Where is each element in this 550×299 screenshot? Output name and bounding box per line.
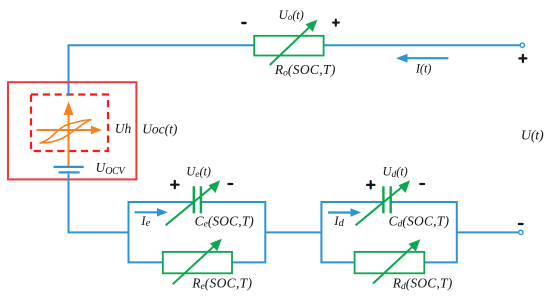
RC loop 1 (blue rectangle with gap for capacitor) xyxy=(129,202,266,262)
label plus above R0 xyxy=(333,20,339,26)
svg-text:Id: Id xyxy=(333,213,344,229)
node: - terminal circle xyxy=(519,230,523,234)
hysteresis dashed red box xyxy=(31,95,108,152)
hysteresis horizontal arrow xyxy=(37,126,103,135)
svg-text:Re(SOC,T): Re(SOC,T) xyxy=(191,276,252,292)
resistor Re variable arrow xyxy=(173,239,222,284)
wire: loop1 to loop2 xyxy=(265,231,321,233)
resistor R0 variable arrow xyxy=(270,20,318,65)
current arrow Id xyxy=(328,208,361,217)
svg-text:Ce(SOC,T): Ce(SOC,T) xyxy=(195,213,255,229)
battery top plate xyxy=(54,166,84,168)
label minus for Ue xyxy=(229,183,233,185)
battery bottom plate xyxy=(59,171,80,173)
capacitor Cd variable arrow xyxy=(356,180,411,225)
label plus for Ud xyxy=(367,181,374,188)
RC loop 2 (blue rectangle with gap for capacitor) xyxy=(321,202,456,262)
node: + terminal circle xyxy=(520,43,524,47)
hysteresis vertical arrow xyxy=(64,102,74,167)
current arrow I(t) xyxy=(396,54,448,63)
svg-text:Rd(SOC,T): Rd(SOC,T) xyxy=(392,276,453,292)
resistor Re box xyxy=(163,252,232,273)
label plus at right terminal xyxy=(519,55,526,62)
resistor Rd variable arrow xyxy=(373,239,420,283)
svg-text:Ue(t): Ue(t) xyxy=(186,165,210,180)
capacitor Cd plates xyxy=(383,186,390,213)
svg-text:I(t): I(t) xyxy=(415,61,432,75)
wire: top rail left of R0 xyxy=(68,44,255,46)
svg-text:Ro(SOC,T): Ro(SOC,T) xyxy=(274,62,336,78)
svg-text:Uh: Uh xyxy=(115,121,132,136)
wire: top rail right of R0 to + terminal xyxy=(324,44,520,46)
svg-text:Cd(SOC,T): Cd(SOC,T) xyxy=(389,213,450,229)
label minus above R0 xyxy=(242,22,245,24)
label plus for Ue xyxy=(171,181,179,188)
wire: blue stub crossing dashed box edge xyxy=(68,91,70,96)
wire: loop2 to - terminal xyxy=(457,231,519,233)
svg-text:Uoc(t): Uoc(t) xyxy=(142,122,178,137)
OCV source red box xyxy=(8,82,136,179)
wire: top-left vertical branch xyxy=(68,45,70,96)
svg-text:Uo(t): Uo(t) xyxy=(278,7,303,22)
resistor R0 box xyxy=(254,36,323,56)
svg-text:Ud(t): Ud(t) xyxy=(383,165,408,180)
svg-text:Ie: Ie xyxy=(140,213,150,229)
svg-text:U(t): U(t) xyxy=(521,129,544,144)
capacitor Ce plates xyxy=(194,186,201,213)
svg-text:UOCV: UOCV xyxy=(96,160,127,177)
label minus for Ud xyxy=(420,183,424,185)
wire: battery down and right to first RC loop xyxy=(69,174,129,233)
current arrow Ie xyxy=(135,208,168,217)
hysteresis loop curves xyxy=(40,120,92,144)
resistor Rd box xyxy=(355,252,425,273)
capacitor Ce variable arrow xyxy=(166,180,221,225)
label minus at right terminal xyxy=(519,223,523,225)
